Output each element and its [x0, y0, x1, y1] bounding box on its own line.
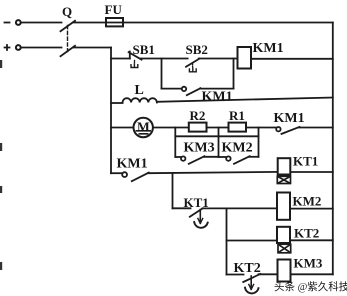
svg-text:KM1: KM1 — [274, 111, 305, 126]
svg-text:SB2: SB2 — [186, 42, 208, 57]
svg-text:FU: FU — [105, 2, 123, 17]
svg-text:KM3: KM3 — [294, 256, 323, 271]
svg-text:R1: R1 — [229, 108, 245, 123]
svg-text:KM2: KM2 — [293, 194, 322, 209]
svg-text:KM3: KM3 — [184, 141, 215, 156]
svg-text:KM2: KM2 — [222, 141, 253, 156]
svg-text:KM1: KM1 — [202, 90, 233, 105]
svg-text:KT2: KT2 — [294, 226, 319, 241]
svg-text:KT1: KT1 — [184, 195, 209, 210]
svg-text:M: M — [137, 120, 150, 135]
svg-text:KM1: KM1 — [117, 157, 148, 172]
svg-text:KT1: KT1 — [293, 154, 318, 169]
svg-text:L: L — [135, 83, 144, 98]
svg-text:KT2: KT2 — [234, 261, 261, 276]
svg-text:KM1: KM1 — [253, 41, 284, 56]
svg-text:Q: Q — [62, 4, 72, 19]
svg-text:SB1: SB1 — [133, 42, 155, 57]
svg-text:头条 @紫久科技: 头条 @紫久科技 — [274, 280, 347, 293]
svg-text:R2: R2 — [190, 108, 206, 123]
